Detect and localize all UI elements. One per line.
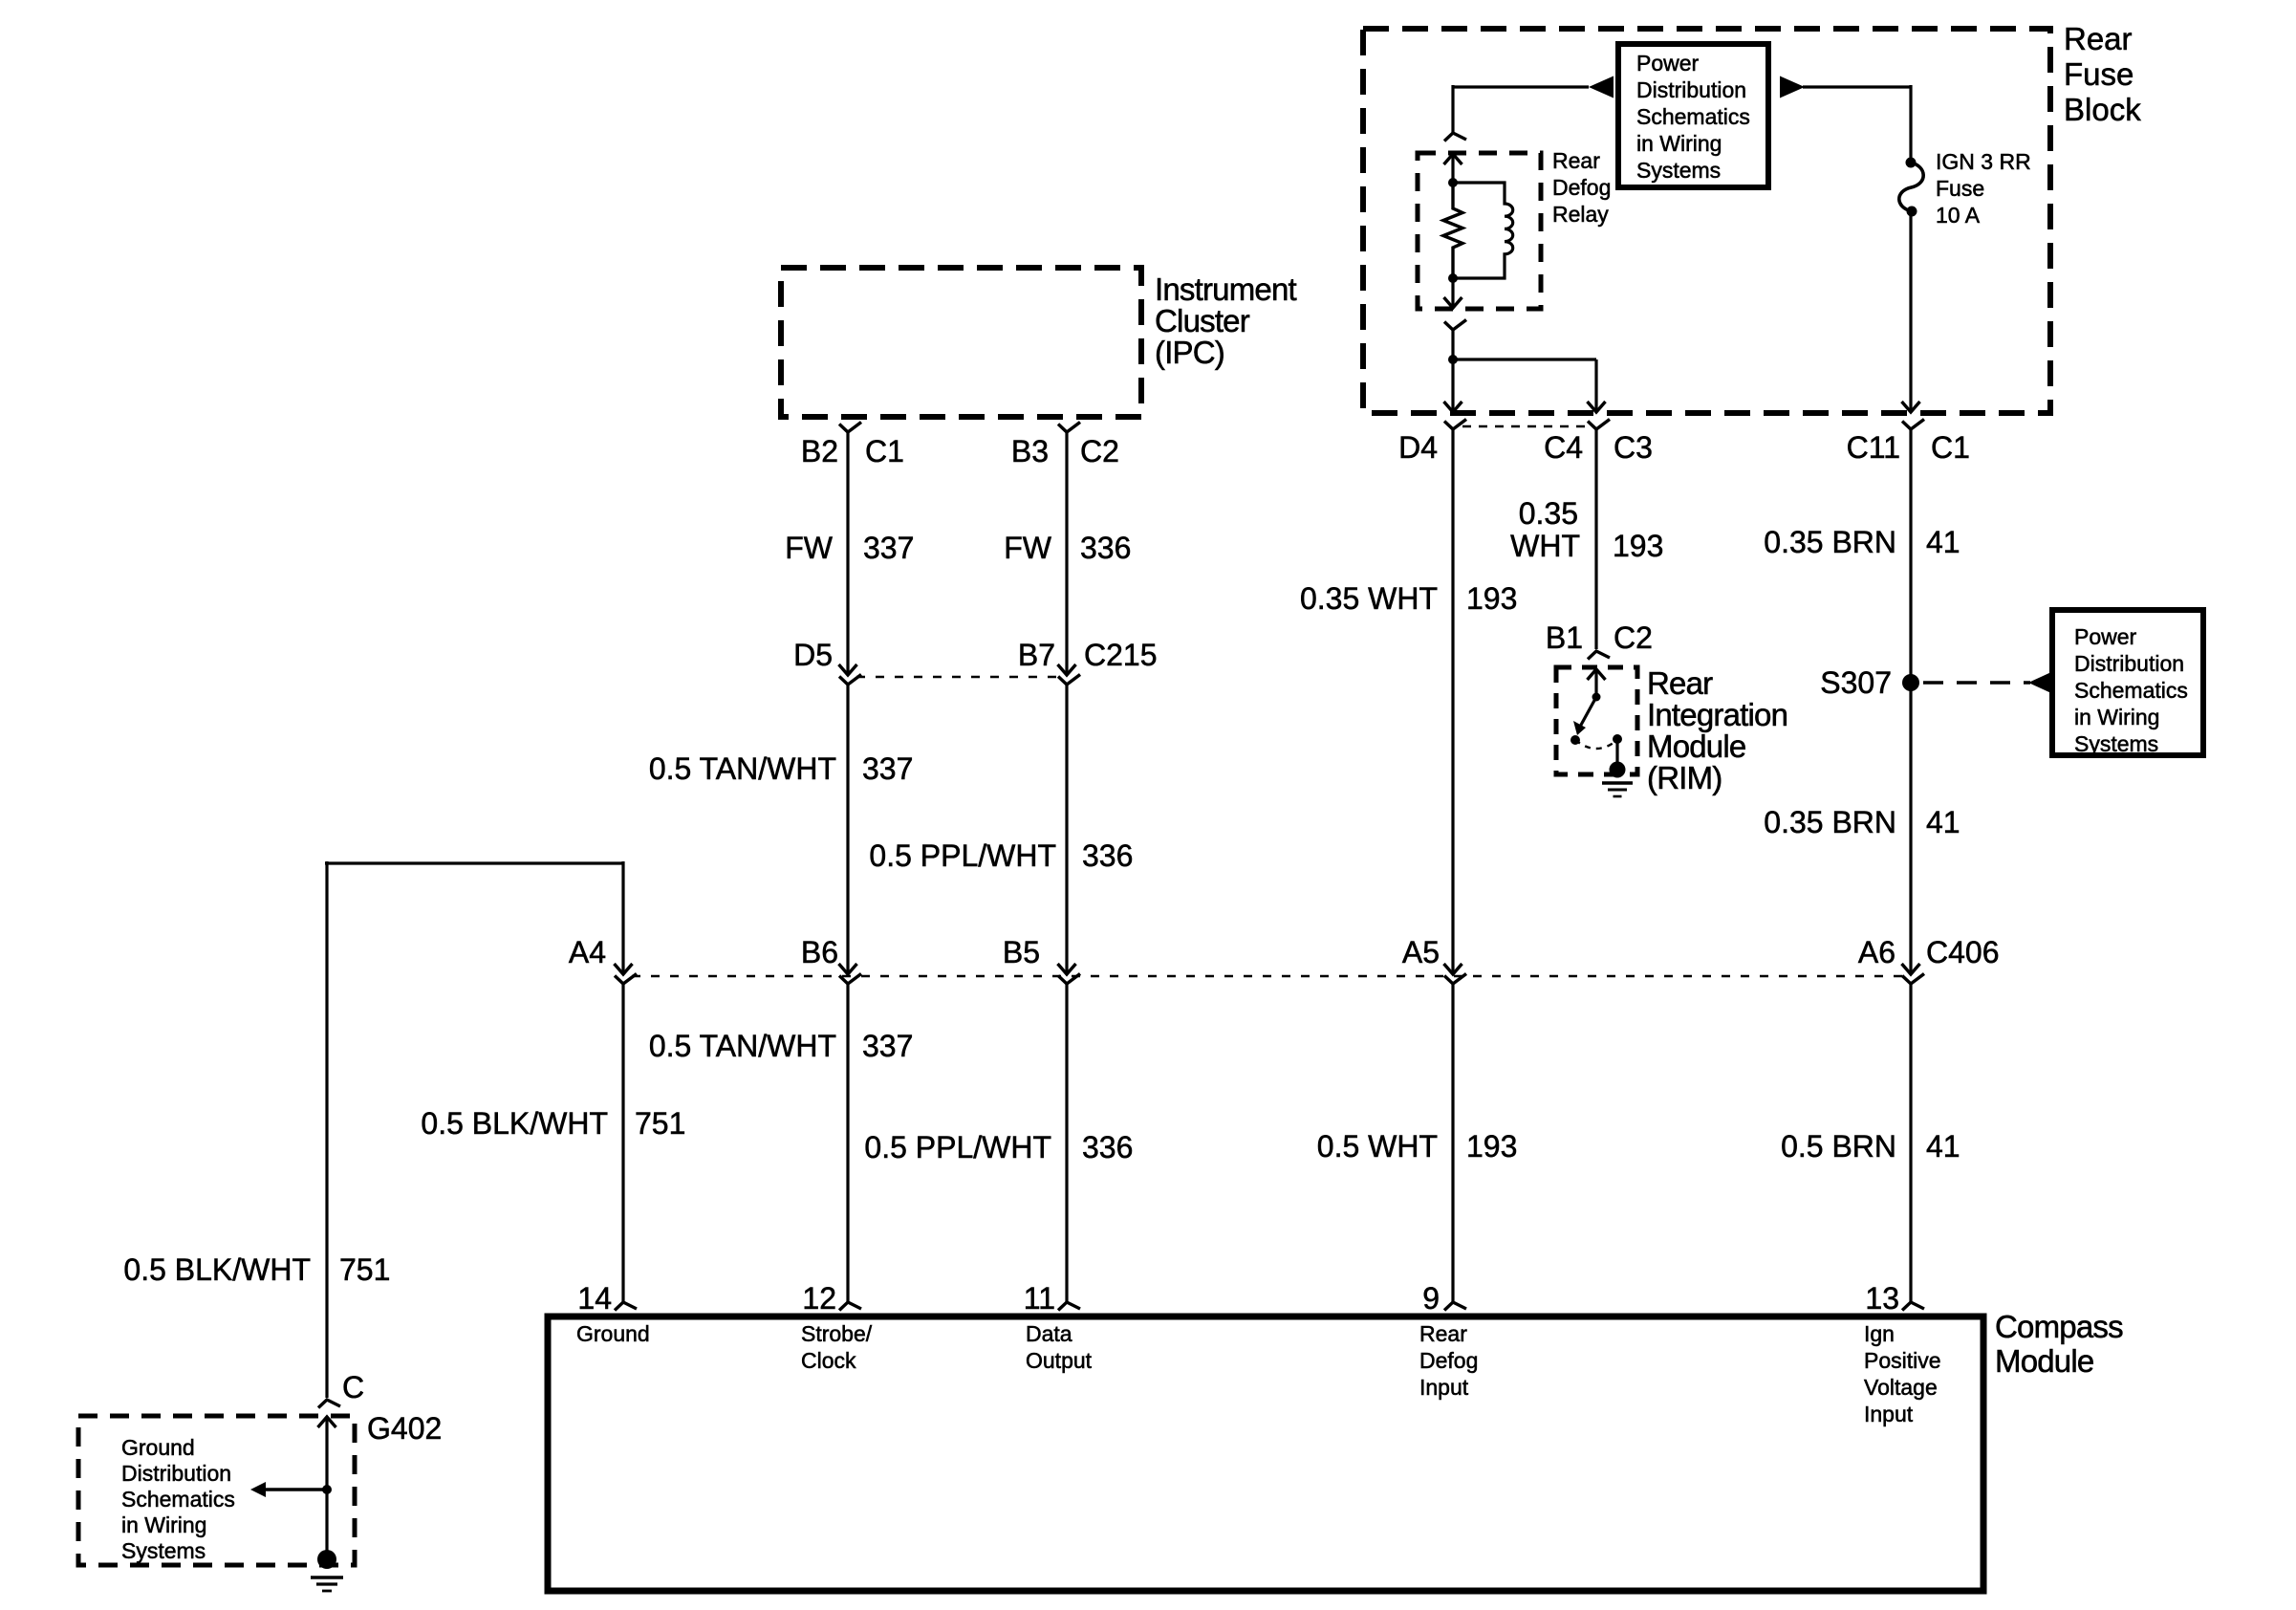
svg-text:D4: D4 [1398, 430, 1438, 465]
svg-text:0.5 WHT: 0.5 WHT [1317, 1129, 1438, 1164]
svg-text:336: 336 [1082, 838, 1133, 873]
svg-text:Strobe/: Strobe/ [801, 1321, 873, 1346]
svg-text:Positive: Positive [1864, 1348, 1941, 1373]
connector chevron B7/B5 wire [1058, 675, 1080, 685]
fuse IGN 3 RR 10 A (symbol) [1906, 158, 1917, 168]
wire: C406 to pin 13 [1909, 984, 1912, 1302]
svg-text:Defog: Defog [1552, 175, 1611, 200]
svg-text:Ground: Ground [576, 1321, 650, 1346]
ground symbol (G402) [311, 1576, 343, 1579]
svg-text:Input: Input [1864, 1402, 1914, 1426]
reference arrow to ground schematics [264, 1488, 327, 1490]
in-line connector dashes (D4-C4) [1462, 425, 1587, 428]
wire: C1 to S307 [1909, 429, 1912, 683]
dashed reference line from S307 [1923, 681, 2030, 684]
svg-text:337: 337 [862, 1029, 913, 1063]
svg-text:0.5 PPL/WHT: 0.5 PPL/WHT [864, 1130, 1051, 1164]
wire: S307 to A6 [1909, 683, 1912, 974]
junction dot (relay top) [1448, 178, 1458, 187]
svg-text:Schematics: Schematics [2074, 678, 2188, 703]
arrow entering relay (points up) [1444, 154, 1462, 164]
svg-text:Systems: Systems [2074, 731, 2158, 756]
svg-text:Rear: Rear [2064, 21, 2133, 56]
svg-text:41: 41 [1926, 805, 1960, 839]
wire: ground branch vertical (751) [325, 861, 328, 1398]
arrowhead B6 [839, 964, 857, 974]
svg-text:A6: A6 [1858, 935, 1895, 969]
svg-text:in Wiring: in Wiring [1636, 131, 1722, 156]
svg-text:Rear: Rear [1552, 148, 1600, 173]
wire: A4 drop [621, 861, 624, 974]
wire 336: C215 to B5 [1065, 685, 1068, 974]
svg-text:Module: Module [1647, 729, 1745, 764]
relay resistor (zigzag) [1443, 183, 1462, 278]
arrowhead at fuse block exit C4 [1588, 402, 1606, 412]
arrowhead into power distribution box (points left) [1589, 76, 1614, 98]
wire: relay output [1451, 330, 1454, 412]
pin chevron 12 [839, 1302, 861, 1311]
svg-text:12: 12 [802, 1281, 836, 1316]
switch arm with arrowhead (RIM) [1580, 697, 1596, 727]
svg-text:Rear: Rear [1647, 665, 1713, 701]
svg-text:0.5 BRN: 0.5 BRN [1781, 1129, 1896, 1164]
svg-text:WHT: WHT [1510, 529, 1580, 563]
switch contact dot right (RIM) [1613, 734, 1622, 744]
svg-text:B1: B1 [1546, 620, 1583, 655]
svg-text:Block: Block [2064, 92, 2141, 127]
wire: fuse to C1 connector [1909, 211, 1912, 412]
wire: ground branch horizontal [325, 861, 623, 864]
svg-text:Data: Data [1026, 1321, 1072, 1346]
svg-text:in Wiring: in Wiring [121, 1512, 206, 1537]
svg-text:Power: Power [1636, 51, 1700, 76]
wire: A4 to pin 14 [621, 984, 624, 1302]
svg-text:336: 336 [1080, 531, 1131, 565]
svg-text:Fuse: Fuse [2064, 56, 2134, 92]
svg-text:A4: A4 [569, 935, 606, 969]
svg-text:193: 193 [1466, 1129, 1517, 1164]
svg-text:41: 41 [1926, 525, 1960, 559]
module box: Compass Module [548, 1316, 1983, 1591]
svg-text:336: 336 [1082, 1130, 1133, 1164]
svg-text:Integration: Integration [1647, 697, 1787, 732]
svg-text:C2: C2 [1080, 434, 1119, 468]
svg-text:Cluster: Cluster [1155, 303, 1250, 338]
connector chevron B2/C1 [839, 423, 861, 433]
arrowhead A6 [1902, 964, 1920, 974]
svg-text:B7: B7 [1018, 638, 1055, 672]
wire 337: IPC C1 to C215 [846, 432, 849, 675]
svg-text:Schematics: Schematics [121, 1487, 235, 1512]
relay box: Rear Defog Relay (dashed) [1418, 153, 1541, 309]
relay coil (winding) [1453, 183, 1513, 278]
pin chevron 9 [1444, 1302, 1466, 1311]
svg-text:C215: C215 [1084, 638, 1158, 672]
svg-text:in Wiring: in Wiring [2074, 705, 2159, 729]
svg-text:C406: C406 [1926, 935, 2000, 969]
svg-text:Schematics: Schematics [1636, 104, 1750, 129]
svg-text:751: 751 [635, 1106, 685, 1141]
wire 336: IPC C2 to C215 [1065, 432, 1068, 675]
wire: B5 to pin 11 [1065, 984, 1068, 1302]
svg-text:D5: D5 [793, 638, 833, 672]
arrowhead at fuse block exit C1 [1902, 402, 1920, 412]
in-line connector dashes C215 [856, 676, 1058, 679]
svg-text:Distribution: Distribution [2074, 651, 2184, 676]
svg-text:0.5 PPL/WHT: 0.5 PPL/WHT [869, 838, 1056, 873]
ground splice dot (RIM) [1610, 762, 1626, 778]
svg-text:G402: G402 [367, 1411, 442, 1446]
reference box: Power Distribution Schematics in Wiring Systems (top) [1618, 44, 1768, 187]
connector chevron B1/C2 (RIM) [1588, 651, 1610, 660]
svg-text:IGN 3 RR: IGN 3 RR [1936, 149, 2031, 174]
svg-text:Fuse: Fuse [1936, 176, 1984, 201]
wire: C4 to RIM B1 [1594, 429, 1597, 649]
svg-text:Systems: Systems [1636, 158, 1721, 183]
svg-text:193: 193 [1613, 529, 1663, 563]
svg-text:A5: A5 [1402, 935, 1440, 969]
pin chevron 13 [1902, 1302, 1924, 1311]
wire: RIM contact to ground [1615, 739, 1618, 765]
svg-text:Module: Module [1995, 1343, 2093, 1379]
module box: Rear Integration Module RIM (dashed) [1556, 667, 1637, 774]
svg-text:FW: FW [785, 531, 834, 565]
wire: power distribution box to IGN 3 RR fuse [1803, 85, 1911, 88]
svg-text:(RIM): (RIM) [1647, 760, 1722, 795]
svg-text:Clock: Clock [801, 1348, 856, 1373]
svg-text:B2: B2 [801, 434, 838, 468]
svg-text:0.5 TAN/WHT: 0.5 TAN/WHT [649, 751, 836, 786]
pin chevron 11 [1058, 1302, 1080, 1311]
switch contact dot left (RIM) [1570, 735, 1580, 745]
svg-text:C: C [342, 1370, 364, 1404]
svg-text:Ground: Ground [121, 1435, 195, 1460]
module box: Instrument Cluster IPC (dashed) [781, 268, 1141, 417]
svg-text:0.5 BLK/WHT: 0.5 BLK/WHT [421, 1106, 608, 1141]
svg-text:10 A: 10 A [1936, 203, 1981, 228]
junction dot (relay bottom) [1448, 273, 1458, 283]
ground splice dot G402 [317, 1550, 336, 1569]
arrowhead A4 [615, 964, 633, 974]
arrow entering G402 (points up) [318, 1417, 336, 1427]
arrowhead at C215 (337) [839, 664, 857, 675]
svg-text:751: 751 [339, 1252, 390, 1287]
module box: Rear Fuse Block (dashed) [1363, 29, 2050, 413]
svg-text:(IPC): (IPC) [1155, 335, 1224, 370]
svg-text:C2: C2 [1614, 620, 1653, 655]
connector chevron D5/B6 wire [839, 675, 861, 685]
arrow leaving relay (points down) [1451, 278, 1454, 308]
svg-text:41: 41 [1926, 1129, 1960, 1164]
svg-text:0.5 BLK/WHT: 0.5 BLK/WHT [123, 1252, 311, 1287]
svg-text:C1: C1 [1931, 430, 1970, 465]
in-line connector dashes C406 row [632, 975, 1903, 978]
svg-text:Power: Power [2074, 624, 2137, 649]
svg-text:337: 337 [862, 751, 913, 786]
svg-text:B5: B5 [1003, 935, 1040, 969]
svg-text:0.35: 0.35 [1519, 496, 1578, 531]
svg-text:S307: S307 [1820, 665, 1892, 700]
svg-text:337: 337 [863, 531, 914, 565]
arrowhead A5 [1444, 964, 1462, 974]
arrowhead from power distribution box (points right) [1780, 76, 1805, 98]
arrowhead into power distribution box 2 (points left) [2028, 672, 2051, 693]
svg-text:C3: C3 [1614, 430, 1653, 465]
svg-text:Voltage: Voltage [1864, 1375, 1938, 1400]
svg-text:Relay: Relay [1552, 202, 1609, 227]
svg-text:Compass: Compass [1995, 1309, 2123, 1344]
ground box: G402 (dashed) [78, 1416, 355, 1565]
svg-text:13: 13 [1865, 1281, 1899, 1316]
svg-text:C11: C11 [1847, 430, 1900, 465]
connector chevron above relay [1444, 133, 1466, 141]
connector chevron C (ground) [318, 1400, 340, 1408]
splice dot S307 [1902, 674, 1919, 691]
wire: relay feed to power distribution box [1453, 85, 1589, 88]
svg-text:Defog: Defog [1419, 1348, 1478, 1373]
svg-text:Distribution: Distribution [121, 1461, 231, 1486]
svg-text:0.35 BRN: 0.35 BRN [1764, 805, 1896, 839]
svg-text:193: 193 [1466, 581, 1517, 616]
wire 337: C215 to B6 [846, 685, 849, 974]
svg-text:B6: B6 [801, 935, 838, 969]
svg-text:C4: C4 [1544, 430, 1583, 465]
svg-text:C1: C1 [865, 434, 904, 468]
wire: branch to C4 [1453, 358, 1596, 360]
connector chevron A4 [615, 974, 637, 985]
svg-text:Ign: Ign [1864, 1321, 1895, 1346]
svg-text:11: 11 [1024, 1281, 1055, 1316]
svg-text:Instrument: Instrument [1155, 272, 1297, 307]
connector chevron B5 [1058, 974, 1080, 985]
svg-text:Input: Input [1419, 1375, 1469, 1400]
arrowhead at C215 (336) [1058, 664, 1076, 675]
arrowhead at fuse block exit D4 [1444, 402, 1462, 412]
junction dot (defog feed split) [1448, 355, 1458, 364]
svg-text:0.35 BRN: 0.35 BRN [1764, 525, 1896, 559]
junction dot (G402) [322, 1485, 332, 1494]
switch pivot dot (RIM) [1592, 693, 1601, 702]
connector chevron C4/C3 [1588, 420, 1610, 430]
connector chevron B3/C2 [1058, 423, 1080, 433]
connector chevron D4 [1444, 420, 1466, 430]
switch dashed travel arc (RIM) [1575, 740, 1617, 749]
svg-text:9: 9 [1422, 1281, 1440, 1316]
arrow entering RIM (points up) [1588, 669, 1606, 680]
connector chevron below relay [1444, 320, 1466, 331]
svg-text:Systems: Systems [121, 1538, 206, 1563]
svg-text:14: 14 [577, 1281, 612, 1316]
pin chevron 14 [615, 1302, 637, 1311]
connector chevron B6 [839, 974, 861, 985]
connector chevron C11/C1 [1902, 420, 1924, 430]
svg-text:Output: Output [1026, 1348, 1093, 1373]
svg-text:0.35 WHT: 0.35 WHT [1300, 581, 1438, 616]
svg-text:FW: FW [1004, 531, 1052, 565]
connector chevron A6 [1902, 974, 1924, 985]
arrowhead B5 [1058, 964, 1076, 974]
ground symbol (RIM) [1602, 781, 1633, 784]
wire: D4 to A5 [1451, 429, 1454, 974]
svg-text:Rear: Rear [1419, 1321, 1467, 1346]
label 12 wire 337 lower [846, 984, 849, 1302]
connector chevron A5 [1444, 974, 1466, 985]
reference box: Power Distribution Schematics in Wiring Systems (right) [2052, 610, 2203, 755]
svg-text:Distribution: Distribution [1636, 77, 1746, 102]
svg-text:0.5 TAN/WHT: 0.5 TAN/WHT [649, 1029, 836, 1063]
svg-text:B3: B3 [1011, 434, 1049, 468]
wire: A5 to pin 9 [1451, 984, 1454, 1302]
